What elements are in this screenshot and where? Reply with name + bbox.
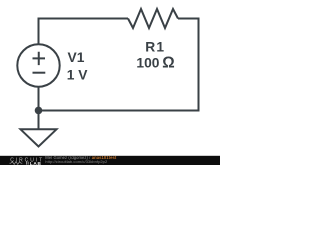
svg-text:LAB: LAB <box>30 161 42 165</box>
footer bar <box>0 156 220 165</box>
wire: V1 top terminal up and right to resistor R1 left terminal <box>39 19 129 45</box>
svg-text:V1: V1 <box>68 50 85 65</box>
svg-text:http://circuitlab.com/c/33kbnf: http://circuitlab.com/c/33kbnfp2p2 <box>45 159 108 164</box>
footer logo capacitor mark <box>27 162 29 165</box>
voltage source V1 <box>17 44 59 86</box>
node junction dot <box>35 107 43 115</box>
svg-text:100Ω: 100Ω <box>136 55 174 72</box>
ground <box>21 129 57 146</box>
wire: V1 bottom terminal down to node <box>38 87 40 111</box>
svg-text:1 V: 1 V <box>67 67 89 82</box>
wire: node down to ground <box>38 111 40 130</box>
wire: resistor R1 right terminal, down right rail, along bottom to node <box>40 19 199 111</box>
resistor R1 <box>128 9 178 28</box>
svg-text:R1: R1 <box>145 40 164 55</box>
footer logo resistor zigzag <box>10 162 23 165</box>
